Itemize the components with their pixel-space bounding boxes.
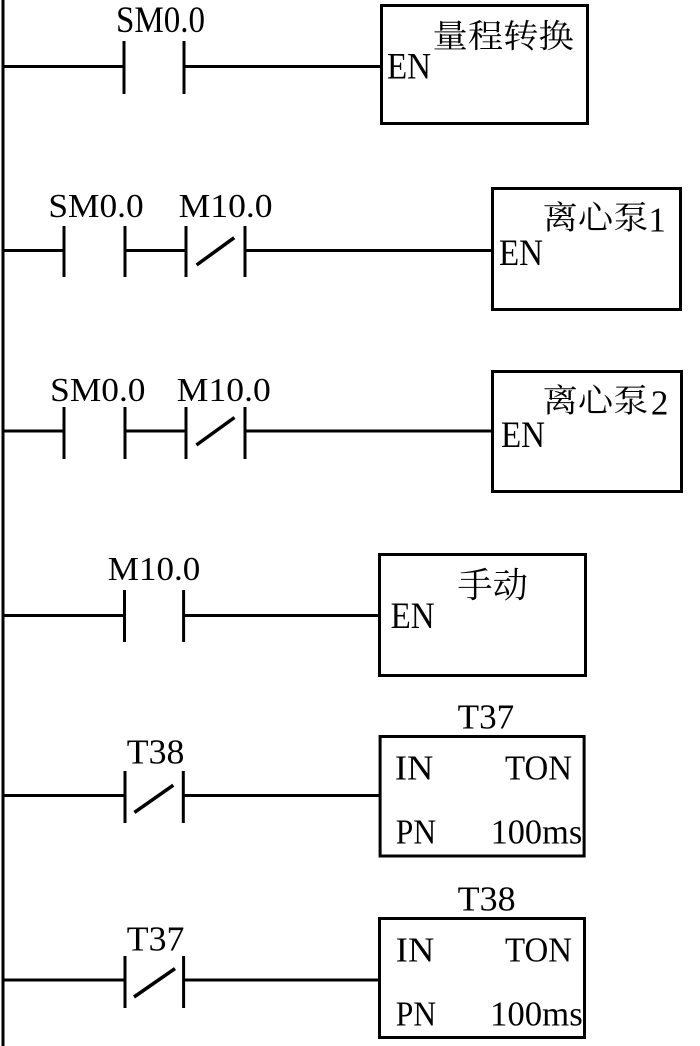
svg-text:T37: T37 <box>127 920 185 959</box>
svg-text:PN: PN <box>396 995 436 1034</box>
svg-text:IN: IN <box>395 749 434 788</box>
svg-text:M10.0: M10.0 <box>179 188 273 225</box>
svg-text:M10.0: M10.0 <box>177 372 271 409</box>
svg-text:M10.0: M10.0 <box>108 551 201 588</box>
svg-text:SM0.0: SM0.0 <box>50 372 145 409</box>
svg-text:T38: T38 <box>127 732 185 771</box>
svg-text:T37: T37 <box>458 698 515 737</box>
svg-text:EN: EN <box>387 47 431 88</box>
svg-text:100ms: 100ms <box>491 813 583 852</box>
svg-text:TON: TON <box>505 749 572 788</box>
svg-text:IN: IN <box>396 931 435 970</box>
svg-text:T38: T38 <box>458 880 516 919</box>
svg-text:SM0.0: SM0.0 <box>48 188 143 225</box>
svg-text:PN: PN <box>396 813 436 852</box>
svg-text:100ms: 100ms <box>490 995 583 1034</box>
svg-text:TON: TON <box>505 931 572 970</box>
svg-text:2: 2 <box>651 383 669 422</box>
svg-text:EN: EN <box>501 415 545 456</box>
svg-text:EN: EN <box>499 233 543 274</box>
svg-text:1: 1 <box>648 201 666 240</box>
svg-text:SM0.0: SM0.0 <box>116 0 205 40</box>
svg-text:EN: EN <box>391 596 435 637</box>
